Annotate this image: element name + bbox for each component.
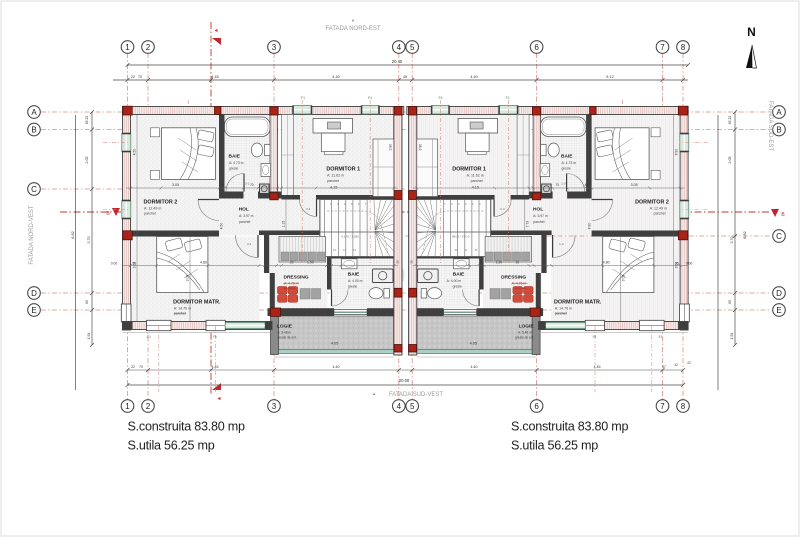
- window left 1: [680, 134, 689, 152]
- section line A: [210, 22, 212, 394]
- red block v1 top: [215, 107, 222, 115]
- svg-text:parchet: parchet: [144, 212, 156, 216]
- bottom wall end piece: [265, 322, 272, 330]
- top exterior wall: [407, 107, 688, 115]
- svg-text:parchet: parchet: [471, 179, 483, 183]
- sink top baie: [540, 164, 550, 177]
- svg-text:DORMITOR MATR.: DORMITOR MATR.: [554, 300, 602, 306]
- svg-text:A: 4.76 m: A: 4.76 m: [284, 282, 299, 286]
- window axis left wall 1: [103, 141, 131, 143]
- window left 2: [122, 201, 131, 219]
- bottom dimension line: [128, 384, 684, 386]
- wall baie/dorm1 vertical (grid 3): [270, 115, 278, 200]
- svg-text:3.05: 3.05: [172, 183, 179, 187]
- svg-text:1.15: 1.15: [282, 221, 286, 228]
- svg-text:BAIE: BAIE: [348, 272, 360, 278]
- svg-text:4.15: 4.15: [472, 186, 479, 190]
- svg-text:A: 4.76 m: A: 4.76 m: [512, 282, 527, 286]
- floor baie top: [225, 115, 271, 192]
- desk dormitor 1: [458, 119, 498, 134]
- stair walk line: [423, 211, 484, 254]
- wall dorm1 bottom: [282, 195, 301, 200]
- red block party top: [409, 107, 417, 116]
- interior dim chain y265: [122, 265, 398, 267]
- svg-text:parchet: parchet: [533, 220, 544, 224]
- svg-text:parchet: parchet: [174, 312, 186, 316]
- wall stairs left: [319, 200, 321, 257]
- window left 3 (white): [680, 304, 690, 322]
- svg-text:BAIE: BAIE: [561, 154, 573, 160]
- stair mid landing line: [417, 231, 491, 233]
- chair dormitor 1: [473, 135, 484, 143]
- svg-text:4.50: 4.50: [587, 223, 591, 230]
- pillows dormitor 2: [596, 130, 613, 143]
- svg-text:3: 3: [272, 43, 277, 52]
- svg-text:parchet: parchet: [327, 179, 339, 183]
- svg-text:gresie: gresie: [348, 285, 357, 289]
- red block v1 top: [590, 107, 597, 115]
- wall matr/dressing vertical: [541, 233, 546, 273]
- svg-text:35: 35: [409, 260, 413, 264]
- window left 1: [122, 134, 131, 152]
- window F1 top: [499, 106, 518, 115]
- svg-text:4.05: 4.05: [470, 342, 477, 346]
- svg-text:70: 70: [250, 183, 254, 187]
- section line B: [60, 211, 771, 213]
- stair mid landing line: [320, 231, 394, 233]
- wall baie bottom w1: [567, 192, 592, 199]
- wall dressing top: [259, 231, 327, 236]
- svg-text:F1: F1: [506, 96, 510, 100]
- svg-text:C: C: [31, 185, 37, 194]
- wall baie/dorm2 vertical: [219, 115, 225, 192]
- svg-text:4.80: 4.80: [200, 261, 207, 265]
- pillows matr: [165, 238, 183, 252]
- svg-text:FATADA NORD-VEST: FATADA NORD-VEST: [29, 205, 35, 264]
- bottom wall corner piece: [678, 322, 688, 330]
- svg-text:3.05: 3.05: [631, 183, 638, 187]
- svg-text:A: A: [776, 108, 782, 117]
- floor baie bottom: [332, 259, 394, 309]
- bed dormitor matr: [603, 237, 654, 293]
- svg-text:8.82: 8.82: [71, 231, 75, 238]
- vertical dim hol: [524, 199, 526, 235]
- bottom exterior wall: [123, 322, 273, 330]
- svg-text:A: 4.00 m: A: 4.00 m: [348, 279, 363, 283]
- svg-text:5.12: 5.12: [606, 75, 613, 79]
- wall dorm1 bottom: [511, 195, 530, 200]
- red block party bottom: [394, 345, 402, 353]
- washer baie bottom: [418, 269, 439, 283]
- svg-text:S.utila 56.25 mp: S.utila 56.25 mp: [128, 439, 215, 453]
- svg-text:gresie: gresie: [453, 285, 462, 289]
- svg-text:0.00: 0.00: [686, 262, 693, 266]
- svg-text:35: 35: [675, 262, 679, 266]
- section B left flag: [112, 208, 120, 216]
- window F1 top: [293, 106, 312, 115]
- svg-text:2: 2: [146, 43, 151, 52]
- logie floor: [417, 316, 537, 350]
- door baie top: [243, 174, 245, 192]
- dressing closet top: [279, 237, 326, 263]
- svg-text:BAIE: BAIE: [229, 154, 241, 160]
- svg-text:2.80: 2.80: [389, 144, 393, 151]
- section A top flag: [212, 38, 221, 45]
- svg-text:0.00: 0.00: [111, 262, 118, 266]
- grid bubbles right: [773, 106, 786, 119]
- table dormitor 1: [466, 133, 490, 152]
- window axis bottom 1: [158, 326, 160, 392]
- svg-text:3.08: 3.08: [186, 275, 190, 282]
- svg-text:DRESSING: DRESSING: [501, 275, 526, 281]
- floor stairwell: [417, 200, 491, 257]
- svg-text:F6: F6: [213, 335, 217, 339]
- svg-text:22: 22: [687, 361, 691, 365]
- nightstand: [651, 128, 660, 137]
- wall matr/dressing vertical: [264, 233, 269, 273]
- window axis left wall 2: [680, 209, 708, 211]
- svg-text:S.construita 83.80 mp: S.construita 83.80 mp: [128, 420, 246, 434]
- floor baie top: [541, 115, 587, 192]
- bottom glazing: [225, 323, 265, 329]
- section A bottom flag: [212, 383, 221, 390]
- svg-text:A: 4.73 m: A: 4.73 m: [562, 161, 577, 165]
- interior dim chain y188: [413, 187, 685, 189]
- svg-text:DORMITOR 2: DORMITOR 2: [635, 200, 669, 206]
- right dimension chains: [717, 115, 719, 390]
- svg-text:5: 5: [410, 43, 415, 52]
- right unit graphics (mirrored): [407, 100, 708, 392]
- svg-text:B: B: [31, 125, 36, 134]
- svg-text:A: 3.97 m: A: 3.97 m: [533, 214, 548, 218]
- svg-text:FATADA SUD-EST: FATADA SUD-EST: [767, 101, 773, 151]
- svg-text:20: 20: [290, 261, 294, 265]
- svg-text:parchet: parchet: [284, 287, 295, 291]
- svg-text:2.80: 2.80: [418, 144, 422, 151]
- wall dressing/baie2 vertical: [327, 256, 332, 290]
- window axis left wall 2: [103, 209, 131, 211]
- party wall: [409, 107, 417, 356]
- svg-text:N: N: [747, 25, 756, 39]
- red block party row D: [409, 288, 417, 297]
- svg-text:12: 12: [674, 363, 678, 367]
- svg-text:35: 35: [396, 260, 400, 264]
- wall bottom of dressing/baie2 w4: [477, 308, 544, 316]
- svg-text:U-4: U-4: [247, 242, 252, 246]
- svg-text:E1: E1: [659, 335, 663, 339]
- logie left wall: [271, 316, 279, 355]
- svg-text:parchet: parchet: [515, 287, 526, 291]
- dressing red closet: [524, 287, 534, 295]
- bottom wall end piece: [539, 322, 546, 330]
- svg-text:F4: F4: [439, 96, 443, 100]
- red block logie corner: [530, 308, 540, 316]
- svg-text:7: 7: [660, 43, 665, 52]
- window axis bottom 2: [594, 326, 596, 392]
- svg-text:45: 45: [585, 183, 589, 187]
- floor dormitor 1: [282, 115, 394, 196]
- closet strip dormitor 1: [517, 115, 529, 197]
- svg-text:45: 45: [221, 183, 225, 187]
- svg-text:4.40: 4.40: [333, 365, 340, 369]
- svg-text:4.40: 4.40: [471, 365, 478, 369]
- svg-text:7: 7: [660, 402, 665, 411]
- svg-text:F1: F1: [301, 96, 305, 100]
- foundation line bottom: [539, 332, 689, 334]
- svg-text:D: D: [31, 289, 37, 298]
- door dormitor 1: [493, 200, 495, 217]
- svg-text:U-3: U-3: [500, 207, 505, 211]
- floor hol: [219, 192, 320, 236]
- svg-text:4.40: 4.40: [332, 75, 339, 79]
- door dormitor 1: [316, 200, 318, 217]
- window axis line F4: [439, 100, 441, 263]
- svg-text:E: E: [31, 306, 36, 315]
- svg-text:A: 11.62 m: A: 11.62 m: [327, 174, 344, 178]
- wall dressing/baie2 vertical: [479, 256, 484, 290]
- window axis left wall 1: [680, 141, 708, 143]
- svg-text:4.50: 4.50: [133, 149, 137, 156]
- svg-text:3.70: 3.70: [87, 237, 91, 244]
- red block grid3 top: [270, 107, 278, 115]
- red block logie corner: [270, 308, 280, 316]
- floor dormitor 2: [591, 115, 680, 233]
- red block party top: [394, 107, 402, 116]
- svg-text:2.05: 2.05: [85, 157, 89, 164]
- toilet baie bottom: [428, 288, 442, 299]
- svg-text:1: 1: [125, 402, 130, 411]
- svg-text:1: 1: [125, 43, 130, 52]
- svg-text:D: D: [776, 289, 782, 298]
- svg-text:A: 11.62 m: A: 11.62 m: [467, 174, 484, 178]
- closet dormitor 1: [373, 139, 394, 197]
- svg-text:65: 65: [728, 300, 732, 304]
- red block grid1 top: [123, 106, 132, 115]
- svg-text:F4: F4: [368, 96, 372, 100]
- staircase: [417, 200, 491, 257]
- svg-text:parchet: parchet: [555, 312, 567, 316]
- svg-text:FATADA NORD-EST: FATADA NORD-EST: [325, 26, 380, 32]
- bottom glazing: [546, 323, 586, 329]
- section B right flag: [771, 209, 779, 217]
- pillows dormitor 2: [197, 130, 214, 143]
- floor hol: [491, 192, 592, 236]
- window axis line F1: [301, 100, 303, 263]
- toilet baie bottom: [369, 288, 383, 299]
- door baie bottom: [478, 290, 480, 307]
- logie glazing strip: [274, 350, 394, 354]
- svg-text:HOL: HOL: [239, 207, 249, 213]
- floor dressing: [269, 235, 327, 308]
- svg-text:◂: ◂: [217, 396, 220, 402]
- door dormitor matr: [552, 235, 554, 258]
- logie left wall: [532, 316, 540, 355]
- svg-text:70: 70: [138, 75, 142, 79]
- svg-text:DORMITOR 2: DORMITOR 2: [144, 200, 178, 206]
- door dormitor matr: [257, 235, 259, 258]
- svg-text:4.50: 4.50: [220, 223, 224, 230]
- svg-text:4: 4: [397, 402, 402, 411]
- toilet top baie: [251, 143, 262, 157]
- svg-text:E: E: [776, 306, 781, 315]
- wall stairs bottom: [417, 256, 484, 259]
- svg-text:6: 6: [534, 43, 539, 52]
- bottom exterior wall: [539, 322, 689, 330]
- stair walk line: [327, 211, 388, 254]
- svg-text:U-1: U-1: [561, 182, 566, 186]
- closet dormitor 1: [417, 139, 438, 197]
- svg-text:A: A: [31, 108, 37, 117]
- svg-text:A: 14.70 m: A: 14.70 m: [555, 307, 572, 311]
- svg-text:4.45: 4.45: [594, 365, 601, 369]
- svg-text:8: 8: [681, 402, 686, 411]
- window F4 top: [362, 106, 380, 115]
- bed dormitor 2: [162, 128, 216, 180]
- svg-text:8: 8: [681, 43, 686, 52]
- svg-text:S.utila 56.25 mp: S.utila 56.25 mp: [511, 439, 598, 453]
- floor baie bottom: [417, 259, 479, 309]
- door baie top: [566, 174, 568, 192]
- svg-text:3: 3: [272, 402, 277, 411]
- vertical dim line x190 bed: [620, 237, 622, 322]
- svg-text:A: 3.97 m: A: 3.97 m: [239, 214, 254, 218]
- svg-text:LOGIE: LOGIE: [519, 324, 535, 330]
- svg-text:65 22: 65 22: [85, 116, 89, 125]
- vertical dim line x137: [136, 115, 138, 322]
- red block party row w1: [409, 191, 417, 200]
- svg-text:◂: ◂: [214, 28, 217, 34]
- grid column lines: [127, 53, 129, 400]
- svg-text:A: 5.48 m: A: 5.48 m: [518, 331, 532, 335]
- svg-text:A: 4.00 m: A: 4.00 m: [447, 279, 462, 283]
- wall stairs left: [490, 200, 492, 257]
- svg-text:0.175 / 1.286: 0.175 / 1.286: [341, 235, 359, 239]
- red block baie corner: [270, 193, 278, 200]
- svg-text:gresie: gresie: [562, 167, 571, 171]
- svg-text:65: 65: [85, 300, 89, 304]
- floor dressing: [483, 235, 541, 308]
- svg-text:3.08: 3.08: [621, 275, 625, 282]
- door dormitor 2: [592, 199, 613, 201]
- left exterior wall: [123, 107, 131, 331]
- svg-text:22: 22: [131, 75, 135, 79]
- vertical dim line x190 bed: [189, 237, 191, 322]
- party wall: [394, 107, 402, 356]
- svg-text:1.15: 1.15: [525, 221, 529, 228]
- svg-text:70: 70: [139, 365, 143, 369]
- top dimension lines: [128, 64, 689, 66]
- window axis line F1: [507, 100, 509, 263]
- svg-text:2: 2: [146, 402, 151, 411]
- bottom window 2: [585, 320, 604, 330]
- svg-text:DORMITOR 1: DORMITOR 1: [326, 167, 360, 173]
- red block grid3 top: [532, 107, 540, 115]
- wall dressing top: [484, 231, 552, 236]
- svg-text:E1: E1: [147, 335, 151, 339]
- toilet top baie: [548, 143, 559, 157]
- svg-text:4: 4: [397, 43, 402, 52]
- svg-text:1.54: 1.54: [730, 333, 734, 340]
- window axis bottom 1: [651, 326, 653, 392]
- red block grid1 top: [678, 106, 687, 115]
- bathtub: [225, 117, 271, 137]
- wall dorm2/matr w2: [592, 231, 681, 237]
- interior dim chain y265: [413, 265, 689, 267]
- wall baie/dorm1 vertical (grid 3): [533, 115, 541, 200]
- red block party row w1: [394, 191, 402, 200]
- svg-text:20.40: 20.40: [392, 59, 403, 64]
- svg-text:A: 14.70 m: A: 14.70 m: [174, 307, 191, 311]
- grid bubbles top: [121, 41, 134, 54]
- red block party row D: [394, 288, 402, 297]
- red block baie corner: [532, 193, 540, 200]
- svg-text:2.05: 2.05: [728, 157, 732, 164]
- wall bottom of dressing/baie2 w4: [268, 308, 335, 316]
- left exterior wall: [680, 107, 688, 331]
- svg-text:4.40: 4.40: [470, 75, 477, 79]
- floor dormitor 1: [417, 115, 529, 196]
- svg-text:1.54: 1.54: [87, 333, 91, 340]
- floor dormitor 2: [131, 115, 220, 233]
- sink baie bottom: [454, 259, 470, 269]
- svg-text:20.00: 20.00: [399, 378, 410, 383]
- vertical dim hol: [285, 199, 287, 235]
- svg-text:F6: F6: [593, 335, 597, 339]
- foundation line bottom: [123, 332, 273, 334]
- svg-text:A: 4.73 m: A: 4.73 m: [229, 161, 244, 165]
- sink top baie: [261, 164, 271, 177]
- svg-text:U-4: U-4: [559, 242, 564, 246]
- pillows matr: [628, 238, 646, 252]
- svg-text:0.175 / 1.286: 0.175 / 1.286: [452, 235, 470, 239]
- svg-text:gresie: gresie: [229, 167, 238, 171]
- window left 3 (white): [121, 304, 131, 322]
- svg-text:LOGIE: LOGIE: [277, 324, 293, 330]
- svg-text:parchet: parchet: [654, 212, 666, 216]
- svg-text:22: 22: [131, 365, 135, 369]
- washer baie bottom: [373, 269, 394, 283]
- svg-text:U-1: U-1: [245, 182, 250, 186]
- red block left wall row C: [123, 231, 132, 240]
- dressing red closet: [278, 287, 288, 295]
- svg-text:4.15: 4.15: [330, 186, 337, 190]
- chair dormitor 1: [327, 135, 338, 143]
- svg-text:35: 35: [132, 262, 136, 266]
- desk dormitor 1: [313, 119, 353, 134]
- door dormitor 2: [198, 199, 219, 201]
- vertical dim line x137: [673, 115, 675, 322]
- wall baie/dorm2 vertical: [586, 115, 592, 192]
- floor stairwell: [320, 200, 394, 257]
- bed dormitor matr: [157, 237, 208, 293]
- svg-text:A: 5.48 m: A: 5.48 m: [278, 331, 292, 335]
- svg-text:45: 45: [403, 75, 407, 79]
- svg-text:DRESSING: DRESSING: [284, 275, 309, 281]
- wall stairs bottom: [327, 256, 394, 259]
- dressing closet top: [485, 237, 532, 263]
- bottom window 1: [147, 320, 172, 330]
- floor dormitor matr: [131, 237, 260, 322]
- wall dorm2/matr w2: [131, 231, 220, 237]
- svg-text:70: 70: [556, 183, 560, 187]
- svg-text:U-3: U-3: [306, 207, 311, 211]
- svg-text:1.90: 1.90: [496, 261, 503, 265]
- washing machine: [260, 184, 270, 194]
- svg-text:DORMITOR 1: DORMITOR 1: [452, 167, 486, 173]
- bathtub: [541, 117, 587, 137]
- svg-text:S.construita 83.80 mp: S.construita 83.80 mp: [511, 420, 629, 434]
- grid row lines: [41, 111, 772, 113]
